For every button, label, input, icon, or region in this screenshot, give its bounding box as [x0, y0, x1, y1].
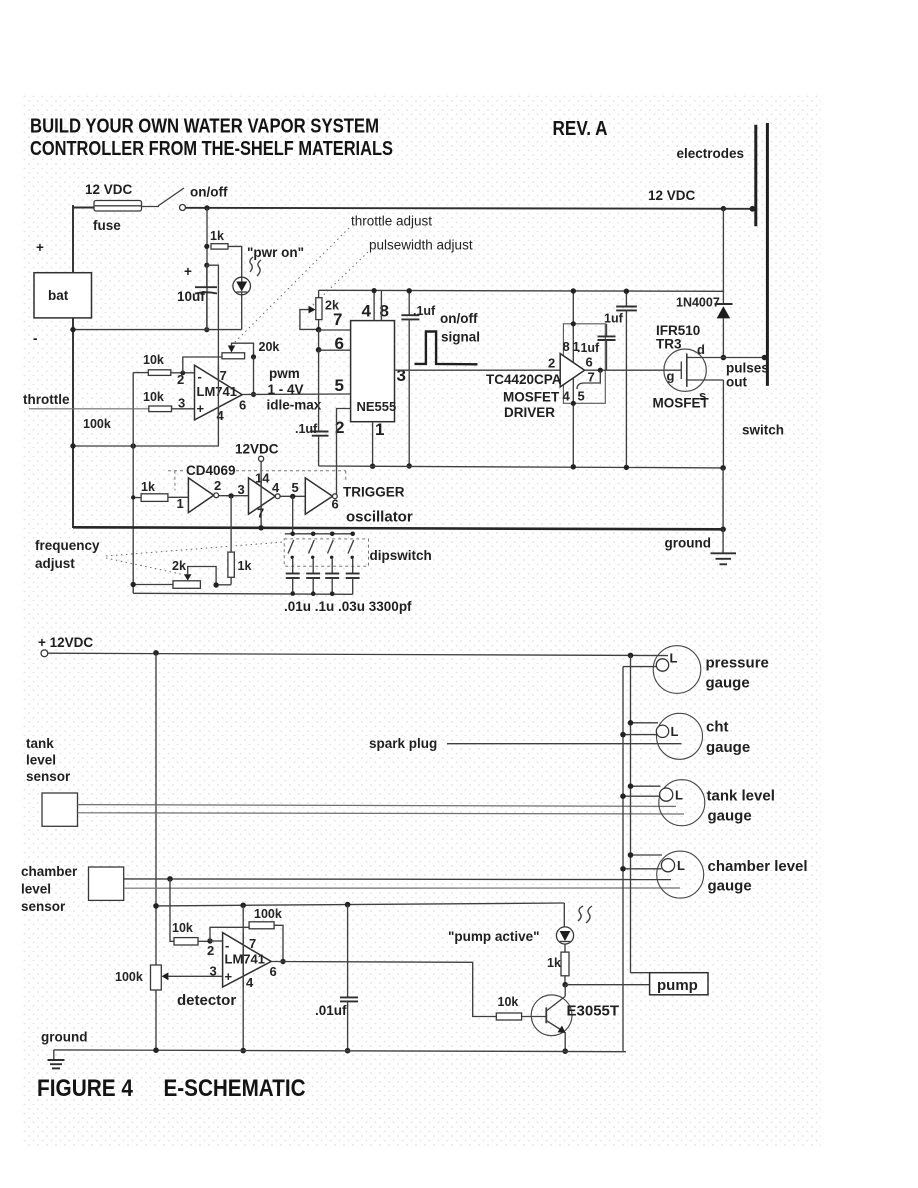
node: pin2 feedback tap — [180, 371, 185, 376]
wire: dipswitch top bus — [285, 533, 354, 535]
svg-text:adjust: adjust — [35, 556, 75, 571]
IC U3 TC4420 outline — [563, 324, 605, 404]
IC NE555 — [351, 321, 395, 422]
svg-text:LM741: LM741 — [197, 384, 237, 399]
wire: supply column over U1 — [217, 365, 219, 420]
resistor R 10k (base) — [496, 1013, 521, 1020]
wire: cap to mid rail — [318, 436, 320, 466]
svg-text:out: out — [726, 375, 747, 390]
wire: V+ mid rail (lower) — [319, 466, 723, 468]
node: detector pin2 — [207, 938, 212, 943]
LED D2 pump active — [556, 927, 573, 944]
wire: pin6 stub — [319, 349, 351, 351]
svg-text:CD4069: CD4069 — [186, 463, 236, 478]
svg-text:DRIVER: DRIVER — [504, 405, 555, 420]
svg-text:dipswitch: dipswitch — [370, 548, 432, 563]
dipswitch dashed box — [284, 539, 368, 566]
wire: pin2 into op-amp — [210, 940, 223, 942]
node: cap tap — [204, 263, 209, 268]
LED D1 pwr on — [233, 277, 251, 295]
svg-text:-: - — [198, 369, 202, 384]
node: detector supply left — [153, 903, 159, 909]
svg-text:1k: 1k — [238, 559, 252, 573]
svg-text:1N4007: 1N4007 — [676, 296, 720, 310]
wire: 12V column through driver — [572, 291, 574, 467]
wire: 1k to collector node — [564, 976, 566, 985]
cht gauge label — [706, 719, 750, 757]
wire: feedback down to output — [253, 357, 255, 395]
dotted pointer: freq adjust to 2k — [106, 558, 183, 575]
resistor R 10k (inverting) — [148, 370, 171, 376]
wire: gauge feed column — [630, 655, 632, 972]
wire: pin7 to pin6 column — [318, 330, 320, 350]
tank level sensor label — [26, 736, 71, 784]
wire: pin3 output long — [395, 369, 561, 371]
svg-text:100k: 100k — [115, 970, 143, 984]
svg-text:1 - 4V: 1 - 4V — [268, 382, 304, 397]
svg-text:1k: 1k — [210, 229, 224, 243]
svg-text:4: 4 — [246, 975, 254, 990]
svg-text:.1uf: .1uf — [577, 341, 600, 355]
wire: pin2 riser to 100k — [210, 927, 249, 941]
svg-text:pulses: pulses — [726, 361, 769, 376]
tank level gauge G3 — [620, 780, 705, 826]
node: driver mid rail — [571, 464, 576, 469]
node: pin7 drop tap — [240, 903, 246, 909]
svg-text:electrodes: electrodes — [677, 146, 745, 161]
svg-text:throttle adjust: throttle adjust — [351, 214, 432, 229]
wire: 1k to inverter1 — [168, 496, 189, 498]
svg-text:4: 4 — [272, 480, 280, 495]
svg-text:5: 5 — [578, 389, 585, 404]
node: trigger input tap — [290, 494, 295, 499]
svg-text:sensor: sensor — [21, 899, 66, 914]
node: main drop tap — [153, 650, 159, 656]
node: pin1 mid rail — [370, 464, 375, 469]
wire: mid rail down to ground rail — [722, 468, 724, 529]
driver triangle U3 — [560, 354, 584, 387]
node: collector junction — [562, 982, 568, 988]
svg-text:+: + — [36, 240, 44, 255]
wire: column to 1k — [133, 497, 141, 499]
svg-text:2: 2 — [207, 943, 214, 958]
resistor R 10k (detector in) — [174, 938, 198, 945]
svg-text:pressure: pressure — [706, 655, 769, 672]
ground symbol (main) — [711, 529, 737, 564]
capacitor C 1uf (rail bypass right) — [616, 291, 637, 467]
svg-text:100k: 100k — [83, 417, 111, 431]
terminal: 12VDC oscillator — [259, 456, 264, 461]
wire: throttle line (faint) — [29, 408, 149, 410]
wire: trigger node down to dipswitch — [292, 496, 294, 533]
svg-text:LM741: LM741 — [225, 952, 265, 967]
node: emitter bottom rail — [562, 1048, 568, 1054]
svg-text:ground: ground — [665, 536, 712, 551]
wire: lower 12VDC distribution — [48, 653, 668, 655]
pump box — [650, 973, 708, 995]
electrode bar right — [766, 123, 769, 386]
svg-text:L: L — [677, 858, 685, 873]
node: pin4 rail — [372, 288, 377, 293]
node: bias link left — [70, 443, 75, 448]
transistor Q E3055T — [531, 985, 572, 1051]
wire: return rail horizontal — [73, 329, 242, 331]
svg-text:on/off: on/off — [190, 185, 228, 200]
wire: detector output run — [271, 962, 496, 1017]
wire: pin1 to mid rail — [372, 422, 374, 467]
dotted pointer: freq adjust to dipswitch — [106, 542, 284, 556]
node: osc feedback tap — [228, 493, 233, 498]
node: cap bottom joins — [290, 591, 334, 596]
wire: gauge return column — [622, 667, 624, 1052]
svg-text:gauge: gauge — [708, 808, 752, 825]
wire: tank sensor line B — [78, 813, 685, 814]
svg-text:TC4420CPA: TC4420CPA — [486, 372, 562, 387]
chamber level sensor box — [89, 867, 124, 900]
potentiometer 20k — [222, 343, 254, 359]
wire: feedback column to 1k vertical — [230, 496, 232, 552]
svg-text:2: 2 — [177, 372, 184, 387]
svg-text:2: 2 — [548, 356, 555, 371]
wire: pin7 column through detector — [242, 905, 244, 1050]
op-amp U4 LM741 detector — [223, 933, 272, 987]
wire: input bias bottom link — [73, 445, 218, 447]
svg-text:spark plug: spark plug — [369, 736, 437, 751]
node: bypass mid rail — [407, 463, 412, 468]
svg-text:3: 3 — [397, 366, 406, 385]
svg-text:L: L — [675, 788, 683, 803]
svg-text:.01u .1u .03u 3300pf: .01u .1u .03u 3300pf — [284, 599, 412, 614]
svg-text:level: level — [26, 753, 56, 768]
svg-text:10k: 10k — [143, 390, 164, 404]
wire: pin7 loop — [577, 370, 600, 389]
wire: switch node down branch — [206, 208, 208, 330]
svg-text:7: 7 — [220, 368, 227, 383]
svg-text:L: L — [671, 724, 679, 739]
wire: pot bottom to pin7 node — [318, 320, 320, 330]
node: source mid rail — [720, 465, 726, 471]
node: diode branch junction — [721, 206, 726, 211]
svg-text:3: 3 — [178, 396, 185, 411]
svg-text:MOSFET: MOSFET — [653, 396, 710, 411]
diode D 1N4007 — [715, 304, 733, 358]
svg-text:"pump active": "pump active" — [448, 929, 540, 944]
svg-text:frequency: frequency — [35, 538, 100, 553]
svg-text:TR3: TR3 — [656, 337, 682, 352]
wire: inv1 to inv2 — [219, 495, 249, 497]
svg-text:1k: 1k — [141, 480, 155, 494]
dipswitch capacitors C .01u .1u .03u 3300pf — [286, 559, 360, 594]
svg-text:CONTROLLER FROM THE-SHELF MATE: CONTROLLER FROM THE-SHELF MATERIALS — [30, 138, 393, 160]
inverter U2C trigger — [305, 478, 337, 514]
ground symbol (lower left) — [48, 1050, 65, 1069]
wire: pin7 column over U4 — [242, 933, 244, 987]
wire: diode column from top rail — [722, 209, 724, 304]
potentiometer 2k (pulse width) — [300, 298, 322, 330]
wire: pin2 L link — [337, 409, 351, 496]
svg-text:12 VDC: 12 VDC — [85, 182, 133, 197]
node: NE555 pin7 — [316, 327, 322, 333]
wire: detector supply line — [156, 903, 564, 906]
svg-text:gauge: gauge — [706, 675, 750, 692]
wire: pin4 to rail — [373, 291, 375, 321]
node: 12VDC at ground rail — [258, 525, 263, 530]
svg-text:NE555: NE555 — [357, 399, 397, 414]
svg-text:L: L — [670, 651, 678, 666]
svg-text:5: 5 — [335, 376, 344, 395]
wire: supply corner to LED2 — [563, 903, 565, 927]
battery BAT — [34, 273, 92, 318]
svg-text:pulsewidth adjust: pulsewidth adjust — [369, 238, 473, 253]
chamber level gauge label — [708, 858, 808, 895]
svg-text:FIGURE 4: FIGURE 4 — [37, 1075, 134, 1102]
wire: 10k to base — [522, 1016, 547, 1018]
svg-text:.1uf: .1uf — [295, 422, 318, 436]
svg-text:on/off: on/off — [440, 311, 478, 326]
svg-text:signal: signal — [441, 330, 480, 345]
wire: V+ rail (upper) — [319, 290, 724, 291]
svg-text:4: 4 — [217, 408, 225, 423]
node: bypass rail — [407, 288, 412, 293]
node: .01uf bottom rail — [345, 1048, 351, 1054]
wire: top 12VDC feed to fuse — [73, 207, 94, 209]
wire: chamber sensor line B — [124, 887, 680, 889]
node: 2k right tap — [213, 582, 218, 587]
tank level sensor box — [42, 793, 78, 826]
LED2 squiggles — [578, 906, 592, 923]
svg-text:throttle: throttle — [23, 392, 70, 407]
chamber level sensor label — [21, 864, 78, 914]
svg-text:100k: 100k — [254, 907, 282, 921]
svg-text:bat: bat — [48, 288, 69, 303]
wire: source down to mid rail — [722, 380, 724, 468]
inverter U2B — [249, 478, 281, 514]
wire: trigger out riser to NE555 pin2 (see pin2 L) — [336, 495, 339, 497]
wire: 10k to pin2 — [133, 372, 148, 374]
potentiometer 100k (detector threshold) — [151, 965, 223, 990]
IFR510 TR3 labels — [656, 323, 706, 403]
transistor TR3 IFR510 MOSFET — [664, 349, 724, 391]
U4 pin labels — [207, 936, 277, 990]
capacitor C .1uf (driver) — [598, 324, 616, 370]
on/off switch S1 — [142, 188, 186, 211]
capacitor C .01uf — [340, 905, 358, 1051]
svg-text:pwm: pwm — [269, 366, 300, 381]
node: driver output — [598, 368, 603, 373]
svg-text:1: 1 — [375, 420, 384, 439]
svg-text:4: 4 — [563, 389, 571, 404]
svg-text:+: + — [184, 264, 192, 279]
wire: LED2 to 1k — [564, 944, 566, 953]
tank level gauge label — [707, 788, 775, 825]
wire: resistor input column — [132, 373, 134, 594]
wire: main vertical drop (12V to detector) — [155, 653, 157, 1051]
wire: 12VDC column over U2B — [260, 478, 262, 514]
wire: left column to 2k — [133, 584, 173, 586]
svg-text:fuse: fuse — [93, 218, 121, 233]
svg-text:g: g — [667, 369, 675, 384]
node: 20k right to output — [251, 354, 256, 359]
svg-text:4: 4 — [362, 302, 372, 321]
svg-text:BUILD YOUR OWN WATER VAPOR SYS: BUILD YOUR OWN WATER VAPOR SYSTEM — [30, 116, 379, 138]
svg-text:1k: 1k — [547, 956, 561, 970]
svg-text:-: - — [33, 331, 38, 346]
svg-text:6: 6 — [586, 355, 593, 370]
node: main drop bottom rail — [153, 1047, 159, 1053]
dipswitch switches — [288, 532, 355, 560]
node: NE555 pin6 — [316, 347, 322, 353]
pressure gauge label — [706, 655, 769, 692]
fuse F1 — [94, 201, 142, 212]
node: 1uf rail top — [624, 289, 629, 294]
node: driver rail top — [571, 288, 576, 293]
svg-text:chamber: chamber — [21, 864, 78, 879]
svg-text:6: 6 — [270, 964, 277, 979]
svg-text:20k: 20k — [259, 340, 280, 354]
node: gauge feed tap — [628, 653, 634, 659]
pulse waveform symbol — [415, 332, 478, 365]
svg-text:14: 14 — [255, 471, 270, 486]
wire: battery + vertical left bus — [72, 205, 74, 273]
svg-text:d: d — [697, 342, 705, 357]
resistor R 1k vertical — [228, 552, 234, 577]
frequency adjust label — [35, 538, 100, 571]
svg-text:ground: ground — [41, 1030, 88, 1045]
svg-text:idle-max: idle-max — [267, 398, 322, 413]
wire: rail corner into 2k pot — [318, 290, 320, 297]
resistor R 10k (non-inverting) — [149, 406, 172, 412]
dotted pointer: throttle adjust to 20k — [234, 228, 349, 343]
svg-text:1uf: 1uf — [604, 312, 624, 326]
cht gauge G2 — [620, 713, 702, 759]
wire: pin7 stub — [319, 329, 351, 331]
svg-text:detector: detector — [177, 992, 236, 1009]
wire: 1k to LED — [228, 246, 242, 277]
svg-text:oscillator: oscillator — [346, 509, 413, 526]
node: 1uf mid rail — [624, 465, 629, 470]
svg-text:10k: 10k — [172, 921, 193, 935]
svg-text:TRIGGER: TRIGGER — [343, 485, 405, 500]
node: bat bus tie — [70, 327, 75, 332]
svg-text:sensor: sensor — [26, 769, 71, 784]
svg-text:E-SCHEMATIC: E-SCHEMATIC — [164, 1075, 306, 1102]
node: column 2k tap — [131, 582, 136, 587]
potentiometer 2k (frequency) — [173, 567, 216, 589]
svg-text:10uf: 10uf — [177, 289, 205, 304]
wire: bottom ground rail — [54, 1050, 626, 1052]
U2C pin labels — [292, 480, 339, 512]
U2A pin labels — [177, 478, 222, 511]
svg-text:MOSFET: MOSFET — [503, 390, 560, 405]
wire: 12VDC drop to ground rail — [260, 461, 262, 527]
wire: 100k to output riser — [274, 925, 283, 961]
chamber level gauge G4 — [620, 851, 704, 898]
wire: 10k to pin2 — [198, 940, 210, 942]
node: .01uf tap — [345, 902, 351, 908]
svg-text:.1uf: .1uf — [413, 304, 436, 318]
svg-text:switch: switch — [742, 423, 784, 438]
wire: tank sensor line A — [78, 805, 677, 807]
NE555 pin labels — [333, 302, 406, 440]
svg-text:pump: pump — [657, 977, 698, 994]
node: pin7 bottom rail — [240, 1048, 246, 1054]
node: drain electrode tie — [762, 355, 768, 361]
svg-text:E3055T: E3055T — [567, 1003, 620, 1020]
svg-text:8: 8 — [563, 339, 570, 354]
svg-text:+: + — [225, 969, 233, 984]
svg-text:12VDC: 12VDC — [235, 442, 279, 457]
on/off signal label — [440, 311, 480, 345]
node: electrode tie — [750, 206, 756, 212]
terminal: +12VDC lower — [41, 650, 48, 657]
wire: collector node to pump — [565, 984, 649, 986]
wire: gauge feed to pump top — [631, 972, 650, 974]
svg-text:tank: tank — [26, 736, 54, 751]
wire: spark plug to cht gauge — [447, 743, 682, 745]
node: MOSFET drain — [721, 355, 727, 361]
svg-text:gauge: gauge — [706, 739, 750, 756]
wire: LED to return rail — [241, 295, 243, 330]
resistor R 1k (pwr-on) — [211, 244, 228, 249]
wire: 1k bottom to 2k wiper link — [230, 577, 232, 584]
capacitor C .1uf (bypass on V+ column) — [401, 291, 419, 466]
U1 pin labels — [177, 368, 246, 423]
svg-text:"pwr on": "pwr on" — [247, 245, 304, 260]
wire: main 12VDC top rail — [186, 208, 753, 209]
capacitor C .1uf (timing) — [312, 432, 329, 436]
svg-text:+: + — [197, 401, 205, 416]
wire: main ground rail — [73, 527, 723, 529]
svg-text:6: 6 — [335, 334, 344, 353]
svg-text:3: 3 — [238, 482, 245, 497]
MOSFET DRIVER label — [503, 390, 560, 421]
wire: 10k to pin3 — [172, 408, 195, 410]
node: ground rail end — [720, 527, 726, 533]
svg-text:7: 7 — [249, 936, 256, 951]
svg-text:6: 6 — [239, 398, 246, 413]
inverter U2A — [188, 478, 218, 513]
dashed outline CD4069 — [168, 471, 346, 491]
svg-text:12 VDC: 12 VDC — [648, 188, 696, 203]
wire: U1 output to NE555 pin5 — [242, 393, 350, 396]
node: driver box top — [571, 321, 576, 326]
U3 pin labels — [548, 339, 595, 404]
resistor R 1k (oscillator) — [141, 494, 168, 502]
op-amp U1 LM741 — [195, 365, 243, 420]
U2B pin labels — [238, 471, 281, 521]
node: osc 1k column — [131, 495, 135, 499]
svg-text:chamber level: chamber level — [708, 858, 808, 875]
wire: pin8 to rail — [380, 291, 382, 321]
node: detector output — [280, 959, 285, 964]
svg-text:REV. A: REV. A — [553, 118, 608, 140]
resistor R 1k (LED2) — [561, 952, 569, 976]
svg-text:10k: 10k — [143, 353, 164, 367]
wire: pin2 riser to 20k pot — [183, 357, 222, 373]
dotted pointer: pulsewidth adjust to 2k — [310, 252, 368, 308]
node: 1k tap — [204, 244, 209, 249]
wire: chamber tap down to 10k — [170, 879, 174, 941]
electrode bar left — [754, 125, 757, 227]
svg-text:1: 1 — [573, 339, 580, 354]
svg-text:6: 6 — [332, 497, 339, 512]
svg-text:.01uf: .01uf — [315, 1003, 347, 1018]
wire: drain to electrode — [691, 357, 767, 359]
LED light squiggles — [250, 257, 261, 276]
svg-text:7: 7 — [588, 370, 595, 385]
wire: driver output to MOSFET gate — [585, 369, 682, 371]
svg-text:7: 7 — [333, 310, 342, 329]
